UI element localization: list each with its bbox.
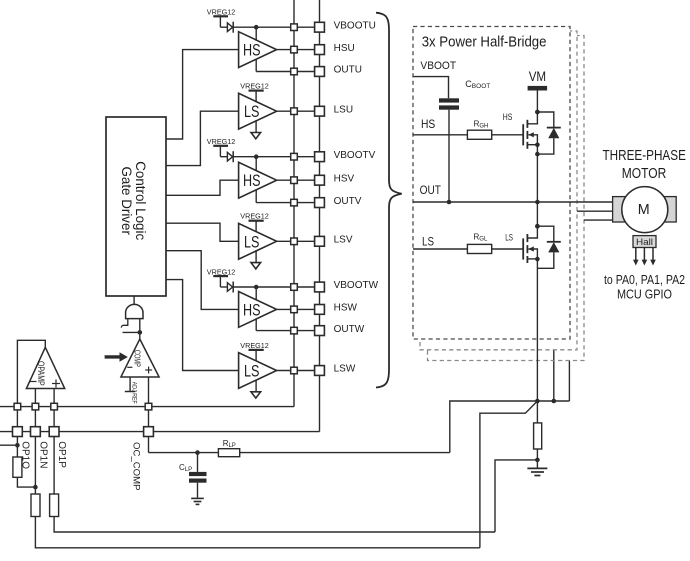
svg-text:VREG12: VREG12 <box>207 137 236 146</box>
svg-text:HSW: HSW <box>334 303 358 314</box>
svg-text:M: M <box>638 202 650 218</box>
svg-text:HS: HS <box>243 301 261 319</box>
svg-text:MOTOR: MOTOR <box>622 166 667 182</box>
svg-text:OUTU: OUTU <box>334 65 362 76</box>
svg-text:LSU: LSU <box>334 104 353 115</box>
svg-text:VM: VM <box>529 68 546 84</box>
svg-text:VBOOTU: VBOOTU <box>334 20 376 31</box>
svg-text:OP1N: OP1N <box>38 441 49 468</box>
svg-text:MCU GPIO: MCU GPIO <box>617 286 672 301</box>
svg-text:HSU: HSU <box>334 43 355 54</box>
svg-text:VBOOT: VBOOT <box>420 60 456 72</box>
svg-text:VREG12: VREG12 <box>240 82 268 91</box>
svg-text:VREG12: VREG12 <box>207 8 236 17</box>
svg-text:OUTW: OUTW <box>334 324 365 335</box>
svg-text:OPAMP: OPAMP <box>35 361 46 386</box>
svg-text:VREG12: VREG12 <box>240 212 268 221</box>
svg-text:OP1O: OP1O <box>20 441 31 469</box>
svg-text:COMP: COMP <box>133 350 142 367</box>
svg-text:HS: HS <box>421 117 435 131</box>
svg-text:OUT: OUT <box>420 183 442 197</box>
svg-text:LS: LS <box>505 232 513 242</box>
svg-text:OC_COMP: OC_COMP <box>131 442 141 491</box>
svg-text:VREG12: VREG12 <box>240 341 268 350</box>
svg-text:ADJ REF: ADJ REF <box>131 382 138 404</box>
svg-text:HSV: HSV <box>334 173 355 184</box>
svg-text:to PA0, PA1, PA2: to PA0, PA1, PA2 <box>604 272 685 287</box>
svg-text:LS: LS <box>422 235 434 249</box>
svg-text:VBOOTW: VBOOTW <box>334 280 379 291</box>
svg-text:HS: HS <box>243 42 261 60</box>
svg-text:VREG12: VREG12 <box>207 267 236 276</box>
svg-text:Control LogicGate Driver: Control LogicGate Driver <box>119 161 148 240</box>
svg-text:LS: LS <box>244 103 259 121</box>
svg-text:Hall: Hall <box>636 237 653 248</box>
svg-text:LS: LS <box>244 233 259 251</box>
svg-text:OP1P: OP1P <box>56 441 67 468</box>
svg-text:LS: LS <box>244 363 259 381</box>
svg-text:3x Power Half-Bridge: 3x Power Half-Bridge <box>422 35 547 51</box>
svg-text:VBOOTV: VBOOTV <box>334 150 376 161</box>
svg-text:LSV: LSV <box>334 235 353 246</box>
svg-text:LSW: LSW <box>334 364 356 375</box>
svg-text:HS: HS <box>243 172 261 190</box>
svg-text:OUTV: OUTV <box>334 196 362 207</box>
svg-text:THREE-PHASE: THREE-PHASE <box>603 148 686 164</box>
svg-text:HS: HS <box>503 112 513 122</box>
